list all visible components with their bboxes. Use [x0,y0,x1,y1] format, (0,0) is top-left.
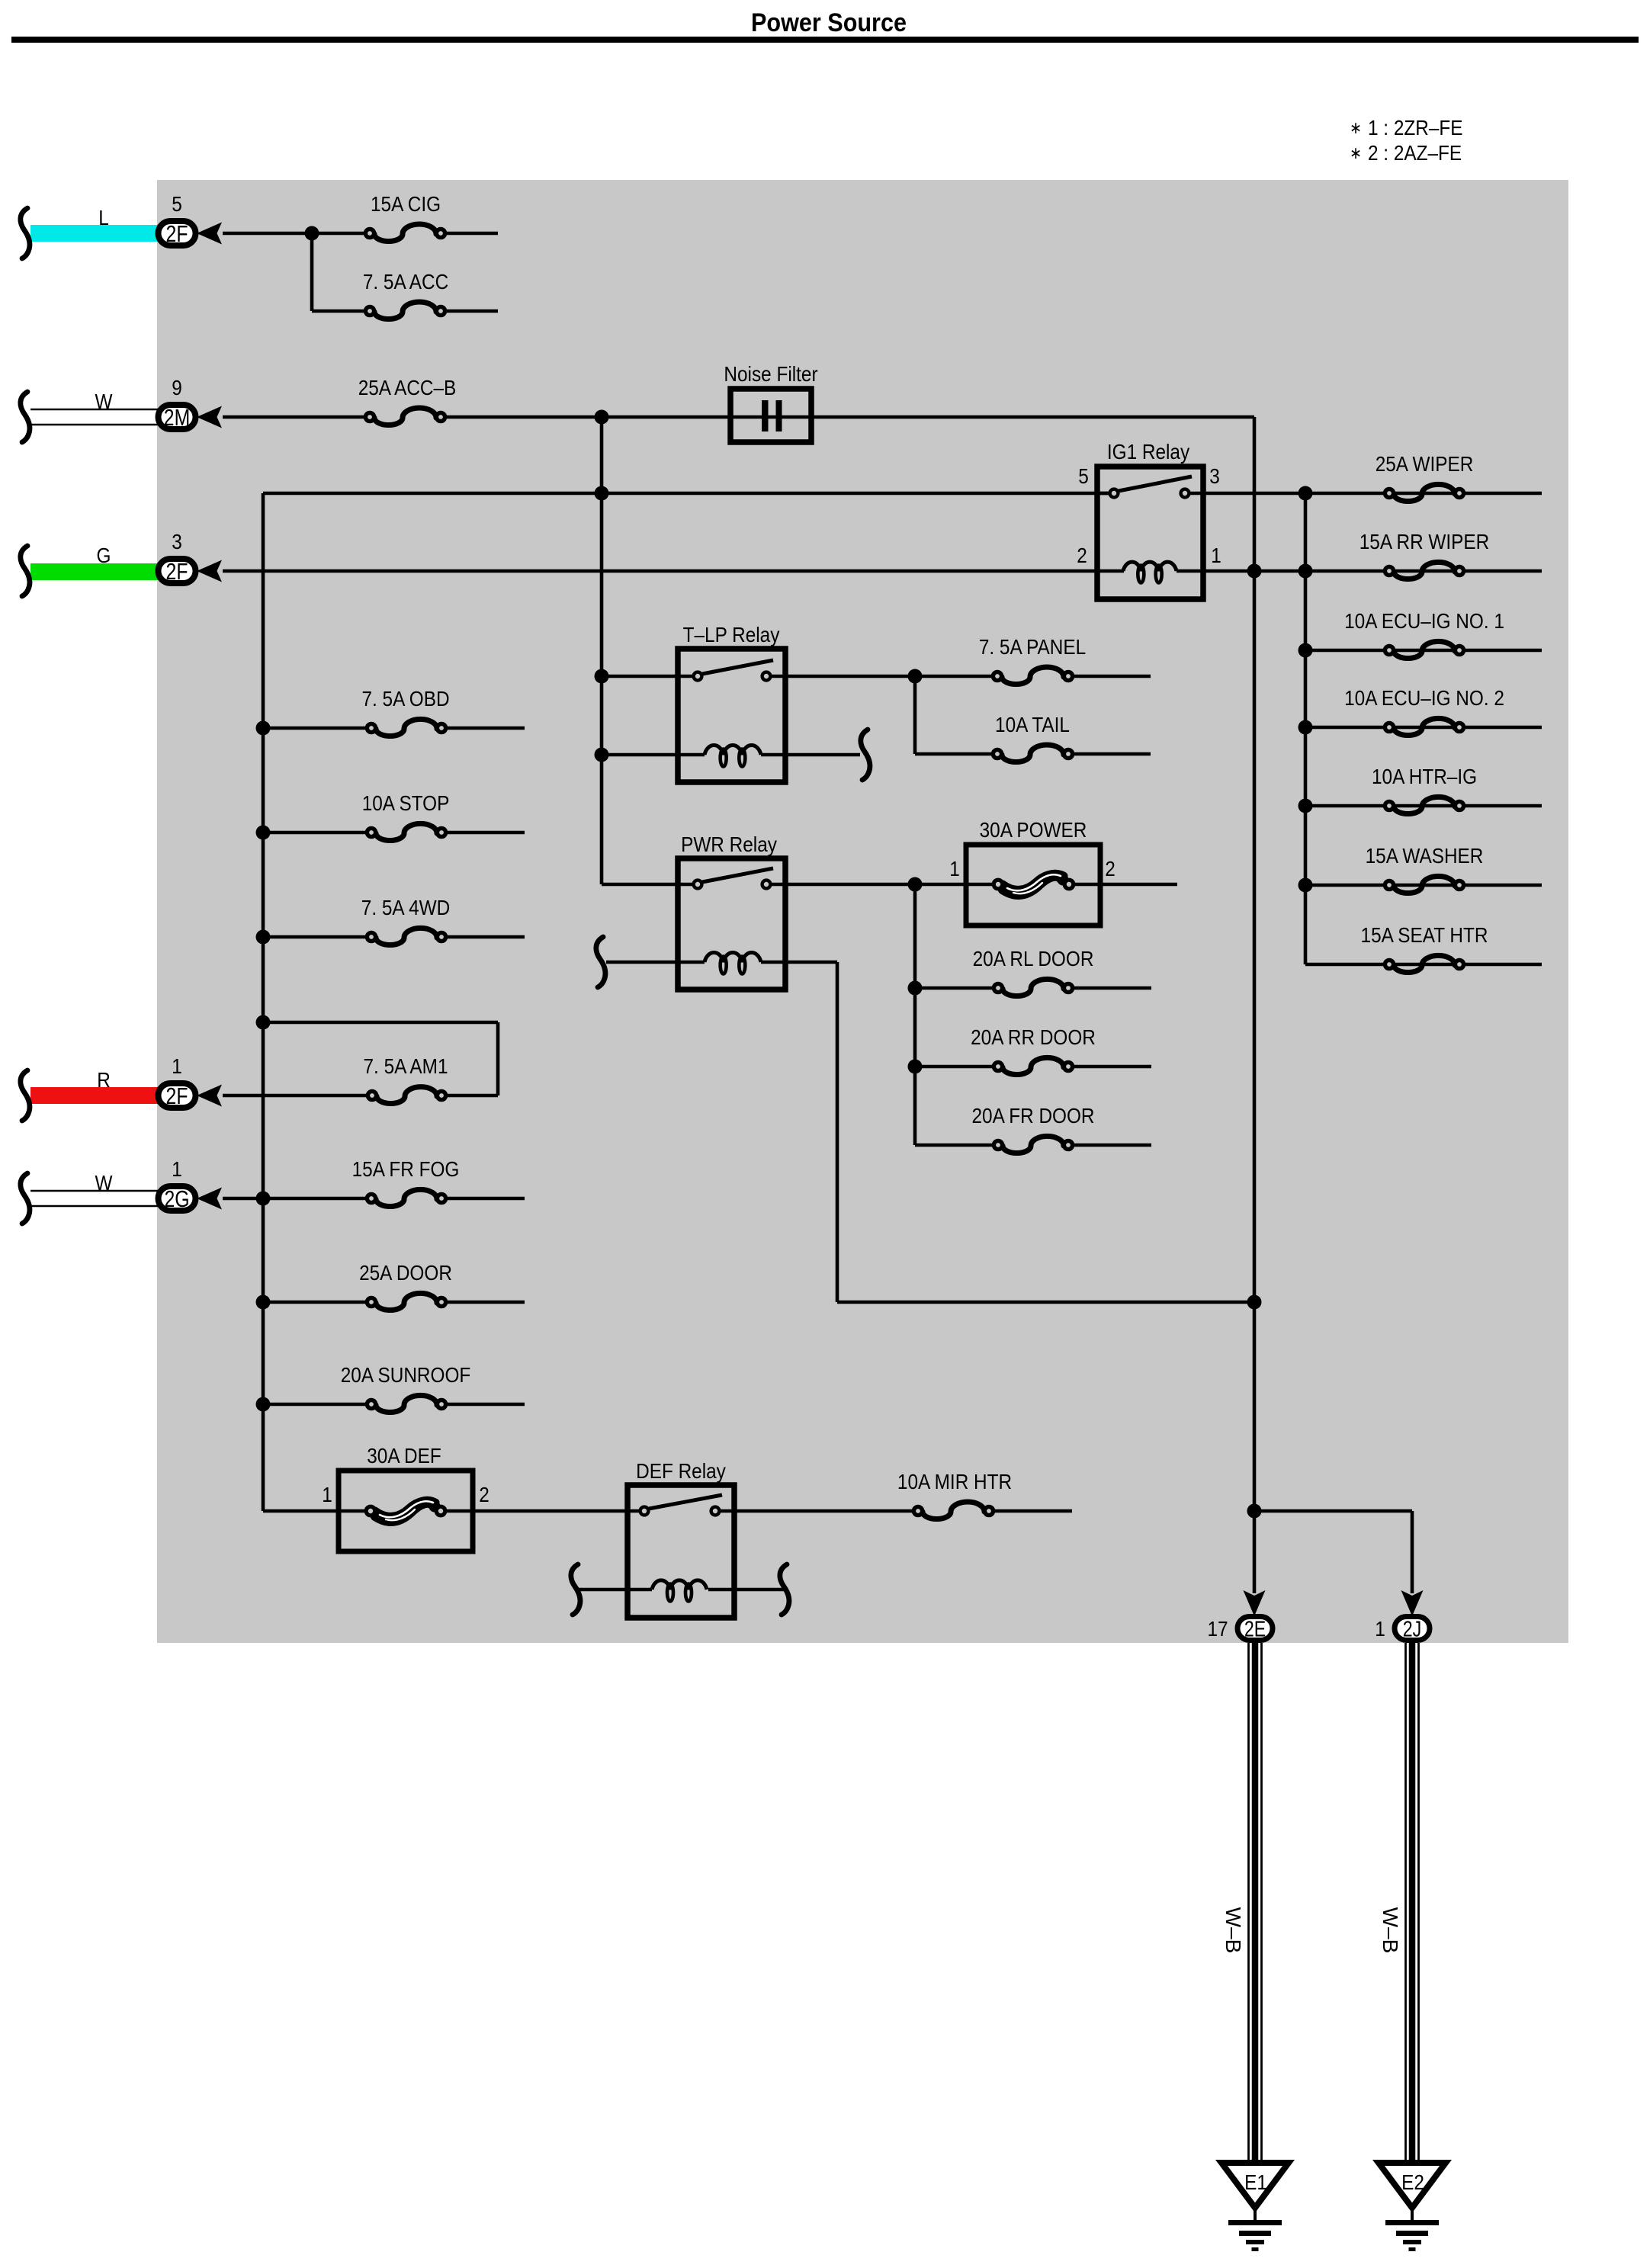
svg-text:Power Source: Power Source [751,8,907,37]
svg-text:10A HTR–IG: 10A HTR–IG [1372,764,1477,788]
svg-text:2E: 2E [1244,1616,1266,1641]
svg-text:15A FR FOG: 15A FR FOG [352,1156,460,1181]
svg-text:25A ACC–B: 25A ACC–B [358,375,457,399]
svg-text:15A WASHER: 15A WASHER [1366,843,1484,868]
svg-text:10A ECU–IG NO. 1: 10A ECU–IG NO. 1 [1344,608,1504,633]
svg-text:5: 5 [172,191,182,216]
svg-text:3: 3 [172,529,182,553]
svg-text:10A ECU–IG NO. 2: 10A ECU–IG NO. 2 [1344,685,1504,710]
svg-text:1: 1 [1375,1616,1385,1641]
svg-text:1: 1 [322,1482,332,1506]
svg-text:15A SEAT HTR: 15A SEAT HTR [1361,922,1488,947]
svg-text:∗: ∗ [1350,144,1362,163]
svg-text:T–LP Relay: T–LP Relay [683,622,781,646]
svg-text:W: W [95,389,113,413]
svg-text:20A RR DOOR: 20A RR DOOR [971,1025,1096,1049]
svg-text:2M: 2M [164,405,190,431]
svg-text:2J: 2J [1403,1616,1422,1641]
svg-text:2F: 2F [166,1083,188,1109]
svg-text:10A STOP: 10A STOP [362,791,450,815]
svg-text:20A RL DOOR: 20A RL DOOR [973,946,1094,970]
svg-text:DEF Relay: DEF Relay [636,1458,727,1483]
svg-text:G: G [97,543,111,567]
svg-text:E1: E1 [1244,2170,1267,2194]
svg-text:IG1 Relay: IG1 Relay [1107,439,1190,464]
svg-text:15A CIG: 15A CIG [371,191,441,216]
svg-text:1: 1 [1211,543,1221,567]
svg-text:30A POWER: 30A POWER [980,817,1087,842]
svg-text:2G: 2G [164,1186,189,1212]
svg-text:2: 2 [1105,856,1116,881]
svg-text:9: 9 [172,375,182,399]
svg-text:10A MIR HTR: 10A MIR HTR [897,1469,1012,1493]
svg-text:2F: 2F [166,221,188,247]
svg-text:15A RR WIPER: 15A RR WIPER [1359,529,1490,553]
svg-text:2F: 2F [166,559,188,585]
svg-text:17: 17 [1207,1616,1228,1641]
svg-text:5: 5 [1078,464,1089,488]
svg-text:1: 1 [172,1156,182,1181]
svg-text:R: R [97,1067,111,1092]
svg-text:L: L [98,205,109,229]
svg-text:2: 2 [479,1482,490,1506]
svg-text:1: 1 [949,856,960,881]
svg-text:2 : 2AZ–FE: 2 : 2AZ–FE [1368,140,1462,165]
svg-text:1: 1 [172,1054,182,1078]
svg-text:10A TAIL: 10A TAIL [995,712,1070,736]
svg-text:7. 5A PANEL: 7. 5A PANEL [979,634,1086,659]
svg-text:W: W [95,1170,113,1195]
svg-text:E2: E2 [1401,2170,1424,2194]
svg-text:∗: ∗ [1350,119,1362,138]
svg-text:25A WIPER: 25A WIPER [1376,451,1474,476]
svg-text:7. 5A 4WD: 7. 5A 4WD [361,895,450,919]
svg-text:30A DEF: 30A DEF [367,1443,441,1468]
svg-text:Noise Filter: Noise Filter [724,361,817,386]
svg-text:20A SUNROOF: 20A SUNROOF [341,1362,471,1387]
svg-text:20A FR DOOR: 20A FR DOOR [971,1103,1094,1128]
svg-text:W–B: W–B [1379,1907,1402,1954]
svg-text:W–B: W–B [1221,1907,1245,1954]
svg-text:1 : 2ZR–FE: 1 : 2ZR–FE [1368,115,1463,140]
svg-text:7. 5A OBD: 7. 5A OBD [361,686,449,711]
svg-text:25A DOOR: 25A DOOR [359,1260,452,1285]
svg-text:7. 5A ACC: 7. 5A ACC [363,269,448,294]
svg-text:3: 3 [1209,464,1220,488]
svg-text:2: 2 [1077,543,1087,567]
svg-text:7. 5A AM1: 7. 5A AM1 [363,1054,448,1078]
svg-text:PWR Relay: PWR Relay [681,832,778,856]
